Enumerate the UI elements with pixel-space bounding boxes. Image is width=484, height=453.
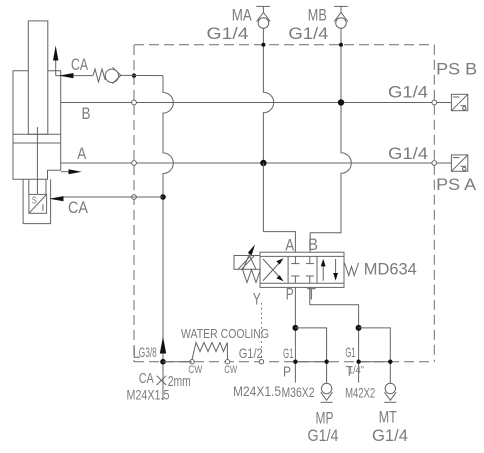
svg-text:2mm: 2mm — [168, 373, 191, 390]
wire line A — [61, 144, 435, 163]
svg-text:CA: CA — [71, 55, 88, 74]
wire MA vertical with hop over B — [263, 29, 273, 164]
wire check valve to boundary — [121, 74, 163, 76]
valve U1 left position crossed arrows — [263, 258, 284, 281]
svg-text:G1/4: G1/4 — [388, 83, 428, 102]
pressure switch PS B — [437, 94, 468, 110]
manifold boundary left dashed — [133, 45, 135, 362]
arrow CA into cylinder (left) — [59, 73, 74, 78]
svg-text:PS B: PS B — [436, 60, 477, 79]
svg-text:MA: MA — [232, 5, 253, 24]
wire MP branch — [295, 328, 326, 384]
svg-text:G1/2: G1/2 — [239, 345, 263, 361]
solenoid of valve U1 proportional — [234, 245, 260, 270]
svg-text:A: A — [77, 144, 87, 163]
svg-text:M24X1.5: M24X1.5 — [233, 383, 281, 399]
wire valve-A from A line to valve port A — [263, 163, 295, 252]
node CA junction at bottom boundary — [160, 359, 166, 365]
svg-text:CW: CW — [224, 364, 237, 376]
svg-text:G1/4: G1/4 — [207, 24, 249, 43]
svg-text:P: P — [283, 364, 291, 381]
test coupling MP — [321, 383, 333, 402]
test coupling MA — [256, 6, 270, 28]
manifold boundary top dashed — [134, 44, 434, 46]
wire Y drain dotted — [261, 303, 263, 361]
svg-text:G1/4: G1/4 — [308, 426, 339, 445]
node MB port on boundary — [339, 43, 343, 47]
svg-text:PS A: PS A — [436, 175, 477, 194]
wire MT branch — [359, 328, 391, 384]
wire T from valve to port — [310, 287, 359, 382]
sensor housing — [23, 179, 50, 223]
valve U1 position dividers — [287, 256, 289, 283]
node CW left port — [190, 360, 194, 364]
node P branch junction — [292, 325, 298, 331]
node MA port on boundary — [261, 43, 265, 47]
svg-text:A: A — [285, 236, 295, 255]
svg-text:G1/4: G1/4 — [288, 24, 328, 43]
svg-text:T: T — [307, 285, 316, 304]
orifice 2mm cross — [157, 376, 167, 385]
arrow CA return (left) — [49, 196, 64, 201]
node P port on boundary — [293, 360, 297, 364]
svg-text:MD634: MD634 — [364, 260, 417, 279]
wire line B — [61, 103, 435, 123]
svg-text:1/4": 1/4" — [348, 365, 364, 377]
wire CA return from sensor — [62, 196, 163, 198]
node MT port on boundary — [388, 360, 392, 364]
arrow drain right at cylinder base — [61, 169, 82, 174]
wire solid segment CA to CW left — [163, 361, 192, 363]
valve U1 MD634 body outer — [260, 252, 344, 287]
cylinder piston — [13, 133, 61, 135]
test coupling MB — [334, 6, 348, 28]
spring left of valve U1 — [243, 270, 261, 283]
node CA junction at return line — [160, 194, 166, 200]
valve U1 right position parallel arrows — [321, 259, 338, 281]
svg-text:P: P — [286, 285, 294, 304]
node T port on boundary — [356, 360, 360, 364]
svg-text:CA: CA — [68, 198, 89, 217]
arrow CA up at bottom — [160, 337, 166, 354]
arrow rod vent up — [53, 46, 58, 76]
node CW right port — [225, 360, 229, 364]
pressure switch PS A — [437, 155, 468, 171]
sensor S transducer box — [29, 194, 47, 213]
spring right of valve U1 — [345, 263, 359, 276]
svg-text:G1/4: G1/4 — [372, 426, 408, 445]
test coupling MT — [384, 383, 396, 402]
svg-text:B: B — [82, 104, 91, 123]
manifold boundary bottom dashed — [134, 361, 434, 363]
node port circles on right boundary — [432, 100, 437, 105]
wire solid boundary segment P to MP — [295, 361, 326, 363]
svg-text:Y: Y — [253, 290, 261, 309]
label G3/8 with corner mark — [134, 344, 157, 360]
cylinder rod — [28, 21, 48, 134]
svg-text:M42X2: M42X2 — [345, 385, 375, 401]
node MB-B junction — [338, 99, 344, 105]
manifold boundary right dashed — [433, 45, 435, 362]
node MA-A junction — [260, 160, 266, 166]
svg-text:M36X2: M36X2 — [282, 384, 315, 400]
node port circles on left boundary — [132, 73, 136, 77]
svg-text:MB: MB — [308, 5, 327, 24]
check valve CV spring — [93, 69, 105, 82]
node Y port circle — [259, 360, 263, 364]
wire CA vertical with hops over B and A — [163, 76, 173, 400]
wire CA supply line — [56, 75, 93, 77]
svg-text:G1/4: G1/4 — [388, 144, 428, 163]
wire solid boundary segment T to MT — [359, 361, 391, 363]
check valve CV ball and seat — [105, 67, 121, 83]
wire P from valve to port — [294, 287, 296, 382]
svg-text:CA: CA — [139, 370, 154, 387]
svg-text:MP: MP — [316, 409, 334, 428]
svg-text:S: S — [32, 196, 37, 207]
svg-text:G1: G1 — [283, 345, 294, 361]
valve U1 inner rails — [260, 255, 344, 257]
svg-text:G3/8: G3/8 — [139, 344, 157, 360]
node MP port on boundary — [324, 360, 328, 364]
node T branch junction — [356, 325, 362, 331]
wire MB vertical with hop over A — [310, 29, 351, 253]
sensor rod — [36, 127, 38, 194]
svg-text:G1: G1 — [345, 344, 356, 360]
svg-text:MT: MT — [379, 408, 397, 427]
svg-text:B: B — [308, 235, 318, 254]
svg-text:WATER COOLING: WATER COOLING — [181, 327, 269, 341]
valve U1 centre closed ports — [291, 256, 314, 283]
svg-text:M24X1.5: M24X1.5 — [127, 386, 170, 402]
cooler CW coil — [192, 343, 228, 360]
cylinder CYL body — [13, 71, 61, 180]
